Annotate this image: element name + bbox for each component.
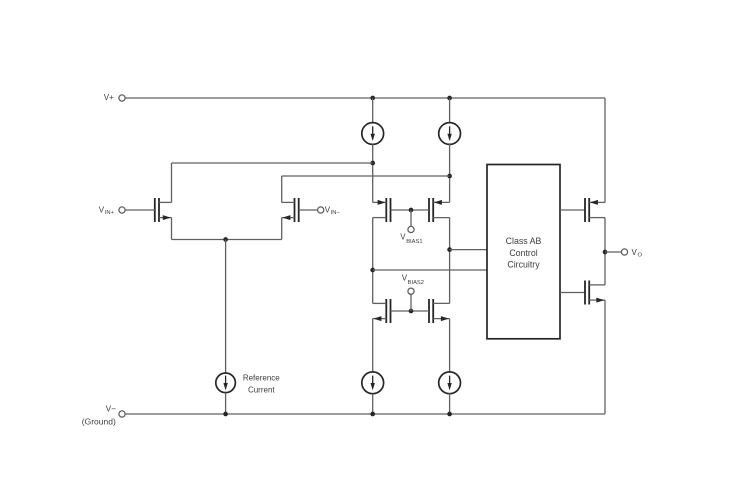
PMOS M3 symbol [373,198,391,222]
node: top rail / left current source [370,96,375,101]
Class AB Control Circuitry block U1 [487,165,560,339]
wire: Class AB box to M7 gate [560,209,585,211]
wire: M4 source down through node to M6 [449,218,451,304]
NMOS M1 symbol [155,198,172,222]
VIN+ terminal [119,207,125,213]
VIN- terminal [318,207,324,213]
VBIAS1 terminal [408,226,414,232]
svg-text:Circuitry: Circuitry [507,259,540,269]
wire: I1 to folded node A [372,144,374,202]
node: V- rail / reference current [223,412,228,417]
NMOS M5 symbol [373,299,391,323]
wire: M1 source down to tail node [171,218,173,240]
V- ground rail [125,413,605,415]
node: V- rail / I4 [447,412,452,417]
svg-text:V+: V+ [104,93,114,102]
svg-text:V−: V− [106,404,116,413]
svg-text:Reference: Reference [243,374,280,383]
svg-text:Control: Control [509,248,537,258]
wire: node to Class AB box upper input [450,249,487,251]
reference current source symbol [216,373,236,393]
current source I2 symbol [439,123,461,145]
PMOS M7 symbol [585,198,605,222]
wire: node to Class AB box lower input [373,269,487,271]
current sink I3 symbol [362,372,384,394]
wire: V+ rail to current source I2 [449,98,451,123]
node: top rail / right current source [447,96,452,101]
current source I1 symbol [362,123,384,145]
node: tail junction [223,237,228,242]
wire: output node to VO terminal [605,251,622,253]
node: output junction [603,250,608,255]
svg-text:IN−: IN− [331,210,341,216]
VIN- gate wire [299,209,318,211]
wire: I3 to V- rail [372,394,374,415]
V+ terminal [119,95,125,101]
wire: M5 gate to VBIAS2 node [391,310,412,312]
wire: reference source to V- rail [225,393,227,414]
wire: common tail [172,239,282,241]
VO terminal [621,249,627,255]
wire: M1 drain up and across to node A [171,163,173,202]
wire: I2 to folded node B [449,144,451,202]
node B: right drain junction [447,174,452,179]
V- terminal [119,411,125,417]
svg-text:Current: Current [248,385,275,394]
NMOS M6 symbol [429,299,450,323]
wire: top rail corner down right side to output PMOS drain [604,98,606,202]
wire: M5 source down to current sink I3 [372,319,374,373]
node: VBIAS2 gate junction [409,309,414,314]
svg-text:IN+: IN+ [105,210,115,216]
svg-text:(Ground): (Ground) [82,416,116,426]
current sink I4 symbol [439,372,461,394]
wire: M3 gate to VBIAS1 node [391,209,412,211]
wire: M6 gate to VBIAS2 node [411,310,429,312]
wire: Class AB box to M8 gate [560,292,585,294]
svg-text:BIAS2: BIAS2 [408,280,424,286]
node: V- rail / I3 [370,412,375,417]
PMOS M4 symbol [429,198,450,222]
wire: tail down to reference current source [225,240,227,374]
wire: M7 drain down to output node [604,218,606,285]
svg-text:Class AB: Class AB [506,236,542,246]
svg-text:BIAS1: BIAS1 [406,239,422,245]
wire: M2 drain up and across to node B [281,176,283,202]
VIN+ gate wire [125,209,155,211]
wire: V+ rail to current source I1 [372,98,374,123]
node: VBIAS1 gate junction [409,208,414,213]
wire: M3 source down through node to M5 [372,218,374,304]
V+ supply rail [125,97,605,99]
wire: M4 gate to VBIAS1 node [411,209,429,211]
Class AB block label [506,236,542,269]
wire: M6 source down to current sink I4 [449,319,451,373]
wire: I4 to V- rail [449,394,451,415]
NMOS M2 symbol [282,198,299,222]
node: left wire to Class AB box [370,268,375,273]
wire: M2 source down to tail node [281,218,283,240]
svg-text:O: O [638,252,643,258]
wire: M8 drain down to V- rail corner [604,300,606,414]
node: right wire to Class AB box [447,247,452,252]
NMOS M8 symbol [585,281,605,305]
VBIAS2 terminal [408,288,414,294]
node A: left drain junction [370,161,375,166]
wire: VBIAS1 stub [410,210,412,227]
wire: VBIAS2 stub [410,294,412,311]
